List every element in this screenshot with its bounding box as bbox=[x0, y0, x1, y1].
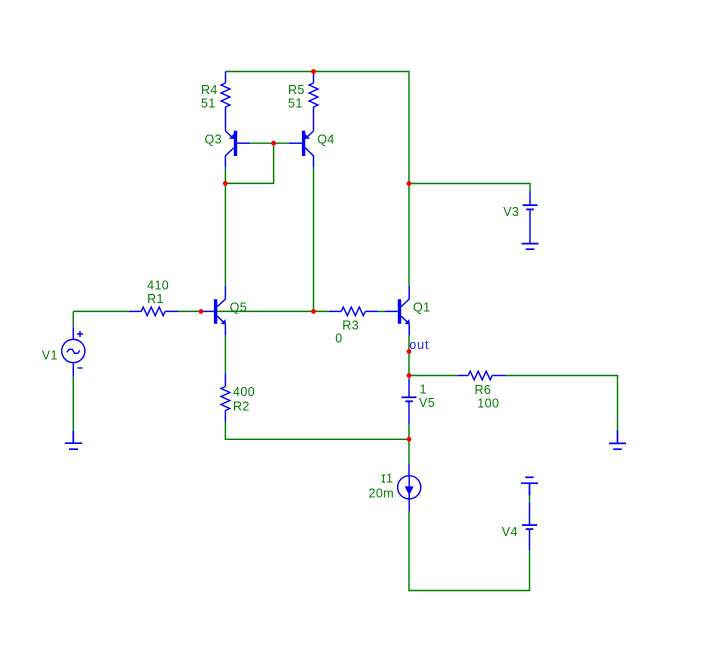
svg-text:0: 0 bbox=[335, 332, 342, 346]
wire Q1 emitter to out node and V5 bbox=[408, 336, 410, 380]
svg-text:V3: V3 bbox=[503, 205, 519, 219]
svg-text:Q5: Q5 bbox=[230, 300, 247, 314]
resistor R1 bbox=[129, 307, 179, 316]
ground (V4 top, inverted) bbox=[521, 477, 538, 496]
current source I1 bbox=[398, 463, 421, 511]
resistor R5 bbox=[309, 72, 318, 132]
svg-text:V1: V1 bbox=[42, 349, 58, 363]
label I1 value 20m bbox=[382, 475, 385, 482]
transistor Q5 bbox=[204, 286, 226, 336]
svg-text:100: 100 bbox=[477, 397, 499, 411]
wire R2 bottom to mid rail bbox=[225, 422, 409, 439]
transistor Q1 bbox=[385, 286, 410, 336]
voltage source V1 bbox=[62, 328, 85, 377]
svg-text:20m: 20m bbox=[369, 486, 395, 500]
svg-text:51: 51 bbox=[288, 96, 303, 110]
svg-text:Q3: Q3 bbox=[205, 132, 222, 146]
ground (V3) bbox=[522, 244, 539, 250]
svg-text:out: out bbox=[409, 338, 429, 352]
wire Q4 collector to R3 node bbox=[313, 168, 315, 312]
svg-text:R3: R3 bbox=[342, 319, 359, 333]
ground (V1) bbox=[65, 431, 82, 449]
svg-text:V5: V5 bbox=[419, 396, 435, 410]
resistor R3 bbox=[329, 307, 378, 316]
resistor R6 bbox=[457, 371, 505, 380]
wire base-collector tie of Q3 bbox=[225, 143, 273, 183]
node junction dots bbox=[199, 69, 412, 442]
svg-text:51: 51 bbox=[201, 96, 216, 110]
wire I1 bottom to bottom rail and V4 bbox=[409, 511, 530, 590]
svg-text:R1: R1 bbox=[147, 292, 164, 306]
svg-text:R4: R4 bbox=[201, 83, 218, 97]
svg-text:Q4: Q4 bbox=[317, 132, 334, 146]
wire out to R6 bbox=[409, 375, 457, 377]
wire V1 top lead bbox=[72, 311, 74, 327]
ground (R6) bbox=[609, 430, 626, 449]
battery V3 bbox=[523, 192, 538, 244]
wire left column Q3 collector to Q5 collector bbox=[224, 168, 226, 286]
transistor Q4 bbox=[289, 131, 314, 168]
svg-text:410: 410 bbox=[147, 278, 169, 292]
transistor Q3 bbox=[225, 131, 250, 168]
svg-text:1: 1 bbox=[420, 382, 427, 396]
svg-text:R6: R6 bbox=[475, 383, 492, 397]
wire V1 to R1 row bbox=[73, 310, 129, 312]
svg-text:1: 1 bbox=[386, 472, 393, 486]
wire Q5 to R3 bbox=[217, 310, 329, 312]
svg-text:400: 400 bbox=[233, 385, 255, 399]
resistor R4 bbox=[221, 72, 230, 132]
svg-text:R5: R5 bbox=[288, 83, 305, 97]
svg-text:Q1: Q1 bbox=[413, 300, 430, 314]
wire R3 to Q1 base bbox=[378, 310, 385, 312]
wire V5 bottom to mid rail bbox=[408, 425, 410, 464]
wire branch to V3 bbox=[409, 184, 530, 192]
wire R6 to ground bbox=[506, 376, 618, 431]
svg-text:V4: V4 bbox=[502, 525, 518, 539]
wire Q5 emitter to R2 bbox=[224, 336, 226, 373]
wire R1 to Q5 base bbox=[178, 310, 203, 312]
wire Q3-Q4 base tie bbox=[250, 142, 289, 144]
wire top rail and right column bbox=[226, 72, 410, 286]
svg-text:R2: R2 bbox=[233, 399, 250, 413]
wire V1 bottom to ground bbox=[72, 376, 74, 431]
battery V5 bbox=[402, 379, 417, 424]
battery V4 bbox=[522, 503, 537, 551]
resistor R2 bbox=[221, 373, 230, 422]
wire V4 upper gap bbox=[529, 496, 531, 503]
